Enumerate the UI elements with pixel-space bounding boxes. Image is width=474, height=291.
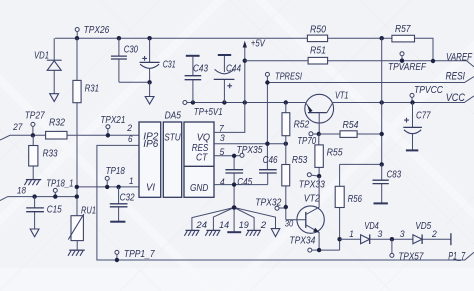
node TPVCC — [410, 100, 414, 104]
ground hatched pin24 — [184, 230, 199, 235]
svg-text:C77: C77 — [416, 111, 431, 122]
node pin1 riser — [75, 185, 79, 189]
diode VD5 — [413, 234, 422, 244]
label C15 — [47, 205, 62, 216]
test point TPX34 — [308, 248, 319, 252]
node diode row left — [337, 237, 341, 241]
label C83 — [387, 170, 402, 181]
label IP6 — [143, 139, 158, 150]
power +5V arrow — [243, 41, 247, 61]
label pin 3 — [220, 133, 226, 143]
wire emitter VT2 — [319, 249, 340, 251]
svg-text:R32: R32 — [49, 118, 65, 129]
svg-text:C45: C45 — [237, 177, 252, 188]
label VT2 — [304, 194, 320, 205]
label R57 — [395, 24, 411, 35]
svg-text:TPX34: TPX34 — [289, 236, 315, 247]
label C44 — [226, 64, 241, 75]
svg-text:14: 14 — [219, 220, 229, 230]
label 3 diode — [378, 229, 384, 239]
svg-text:VT1: VT1 — [335, 91, 349, 102]
IC DA5 box STU — [163, 122, 181, 197]
label TP27 — [25, 111, 45, 122]
svg-text:TPX35: TPX35 — [237, 145, 263, 156]
svg-text:STU: STU — [164, 133, 181, 144]
svg-text:+5V: +5V — [251, 39, 266, 50]
label 24 — [195, 220, 207, 230]
wire R54 net — [319, 133, 382, 135]
label C31 — [163, 60, 176, 71]
svg-text:2: 2 — [126, 123, 132, 133]
svg-text:R51: R51 — [310, 46, 326, 57]
label 19 — [239, 220, 249, 230]
node TP18_1 — [53, 194, 57, 198]
capacitor C31 polarized — [140, 38, 160, 82]
label VCC — [446, 92, 466, 104]
svg-text:VQ: VQ — [197, 133, 210, 144]
label GND — [190, 183, 208, 194]
capacitor C32 — [110, 187, 128, 221]
svg-text:TP+5V1: TP+5V1 — [194, 107, 223, 118]
label TP18 — [106, 166, 126, 177]
wire pin1 net — [77, 186, 139, 188]
label TPVCC — [414, 85, 444, 96]
svg-text:TPVAREF: TPVAREF — [388, 62, 427, 73]
node +5V riser rail — [243, 100, 247, 104]
node TPVAREF — [400, 59, 404, 63]
node ground fan — [232, 205, 237, 210]
svg-text:TP18_1: TP18_1 — [46, 178, 73, 189]
test point TPVCC — [410, 93, 414, 102]
svg-text:R55: R55 — [327, 148, 343, 159]
svg-text:R31: R31 — [85, 84, 99, 95]
label TP70 — [297, 136, 316, 147]
test point TP70 — [309, 132, 319, 136]
svg-text:R33: R33 — [43, 148, 58, 159]
diode VD4 — [361, 234, 370, 244]
test point TP18_1 — [53, 188, 57, 196]
wire VCC net — [333, 96, 474, 103]
resistor R32 — [46, 131, 67, 139]
label TPX34 — [289, 236, 315, 247]
svg-text:TPRESI: TPRESI — [275, 71, 302, 82]
label VQ — [197, 133, 210, 144]
label TP+5V1 — [194, 107, 223, 118]
node C83 — [380, 162, 384, 166]
svg-text:18: 18 — [17, 185, 27, 195]
label C32 — [120, 192, 135, 203]
capacitor C77 polarized — [403, 103, 422, 150]
transistor VT1 — [305, 94, 334, 134]
test point TPRESI — [265, 72, 269, 76]
terminal bar P1 — [450, 233, 452, 245]
label pin 1 — [129, 176, 134, 186]
node TPX34 — [317, 248, 321, 252]
resistor R31 — [73, 38, 81, 216]
svg-text:2: 2 — [431, 229, 437, 239]
svg-text:C44: C44 — [226, 64, 241, 75]
ground arrow below C31 — [145, 82, 154, 104]
ground hatched RU1 — [68, 250, 85, 256]
wire RESI net — [267, 77, 474, 83]
label C30 — [124, 45, 139, 56]
label P1_7 — [448, 250, 466, 262]
test point TP27 — [31, 122, 35, 135]
svg-text:24: 24 — [195, 220, 207, 230]
capacitor C15 — [26, 197, 44, 229]
resistor R33 — [29, 135, 38, 179]
svg-text:IP6: IP6 — [143, 139, 158, 150]
resistor R54 — [340, 131, 357, 138]
node pin4 C45 — [232, 182, 236, 186]
test point TPVAREF — [400, 52, 404, 61]
wire net 18 input — [0, 197, 77, 201]
label 1 diode — [349, 229, 354, 239]
svg-text:6: 6 — [128, 134, 133, 144]
wire C83 net — [340, 163, 382, 165]
svg-text:C30: C30 — [124, 45, 139, 56]
svg-text:R56: R56 — [348, 194, 363, 205]
label R51 — [310, 46, 326, 57]
label R32 — [49, 118, 65, 129]
ground arrow fan — [271, 229, 280, 237]
capacitor C45 — [225, 156, 243, 208]
svg-text:C32: C32 — [120, 192, 135, 203]
resistor R52 — [282, 103, 290, 144]
node pin5 C45 — [232, 154, 236, 158]
label R33 — [43, 148, 58, 159]
svg-text:7: 7 — [219, 123, 225, 133]
svg-text:TP18: TP18 — [106, 166, 126, 177]
label VAREF — [446, 51, 472, 63]
svg-text:VI: VI — [146, 183, 155, 194]
wire +5V riser pin7 — [214, 61, 245, 133]
label STU — [164, 133, 181, 144]
label C77 — [416, 111, 431, 122]
svg-text:TP27: TP27 — [25, 111, 45, 122]
capacitor C30 — [111, 38, 127, 82]
label TPP1_7 — [124, 249, 155, 260]
label C43 — [193, 64, 208, 75]
svg-text:VT2: VT2 — [304, 194, 320, 205]
label 2 diode — [431, 229, 437, 239]
wire pin6 riser TPP1_7 — [97, 145, 474, 260]
svg-text:R53: R53 — [292, 155, 308, 166]
label IP2 — [143, 132, 158, 143]
node riser 18 — [75, 194, 79, 198]
label C46 — [263, 155, 278, 166]
node R31 top — [75, 36, 79, 40]
wire pin3 net — [214, 143, 286, 145]
svg-text:4: 4 — [220, 177, 225, 187]
svg-text:3: 3 — [378, 229, 384, 239]
node bus VCC — [380, 100, 384, 104]
test point TPX57 — [390, 239, 394, 257]
node C30 top — [117, 36, 121, 40]
svg-text:VD5: VD5 — [415, 221, 431, 232]
label CT — [196, 153, 208, 164]
node VAREF corner — [431, 59, 435, 63]
IC DA5 box IP — [139, 122, 161, 197]
svg-text:C43: C43 — [193, 64, 208, 75]
label VD1 — [34, 51, 49, 62]
svg-text:DA5: DA5 — [165, 111, 182, 122]
capacitor C83 — [373, 164, 389, 202]
diode VD1 — [47, 60, 62, 93]
label VD4 — [364, 221, 379, 232]
ground bar below C32 — [110, 221, 125, 223]
label RU1 — [81, 205, 96, 216]
node TP27 — [31, 133, 35, 137]
svg-text:C31: C31 — [163, 60, 176, 71]
label TPX32 — [255, 198, 281, 209]
resistor R55 — [315, 134, 323, 176]
svg-text:TP70: TP70 — [297, 136, 316, 147]
node R52 top — [284, 100, 288, 104]
svg-text:C46: C46 — [263, 155, 278, 166]
node TPRESI — [265, 80, 269, 84]
label VD5 — [415, 221, 431, 232]
node C43 bottom — [191, 100, 195, 104]
label 14 — [219, 220, 229, 230]
label R31 — [85, 84, 99, 95]
svg-text:TPX32: TPX32 — [255, 198, 281, 209]
node C44 bottom — [222, 100, 226, 104]
ground hatched R33 — [24, 180, 41, 186]
svg-text:P1_7: P1_7 — [448, 250, 466, 262]
node bus top — [380, 36, 384, 40]
svg-text:1: 1 — [129, 176, 134, 186]
resistor R50 — [307, 35, 327, 42]
test point TP+5V1 — [183, 101, 187, 105]
label TPX26 — [84, 25, 110, 36]
wire +5V1 rail — [187, 102, 382, 104]
svg-text:VCC: VCC — [446, 92, 466, 104]
svg-text:RU1: RU1 — [81, 205, 96, 216]
label R52 — [294, 120, 310, 131]
svg-text:TPX26: TPX26 — [84, 25, 110, 36]
ground arrow below VD1 — [50, 94, 59, 102]
wire pin5 net — [214, 155, 240, 157]
label pin 4 — [220, 177, 225, 187]
ground bar below C83 — [374, 202, 388, 204]
svg-text:RESI: RESI — [446, 71, 466, 83]
svg-text:VD1: VD1 — [34, 51, 49, 62]
node +5V corner — [243, 59, 247, 63]
node TP18 — [105, 185, 109, 189]
varistor RU1 — [68, 214, 84, 250]
test point TPX35 — [240, 153, 244, 157]
label R56 — [348, 194, 363, 205]
node TP70 — [317, 132, 321, 136]
svg-text:3: 3 — [220, 133, 226, 143]
test point TPX33 — [307, 173, 319, 177]
node pin3 TPRESI column — [265, 142, 269, 146]
svg-text:19: 19 — [239, 220, 249, 230]
label +5V — [251, 39, 266, 50]
label TPX35 — [237, 145, 263, 156]
label TPX57 — [398, 251, 423, 262]
label 18 — [17, 185, 27, 195]
label R53 — [292, 155, 308, 166]
svg-text:TPX33: TPX33 — [299, 179, 325, 190]
svg-text:27: 27 — [12, 122, 23, 132]
label 27 — [12, 122, 23, 132]
svg-text:GND: GND — [190, 183, 208, 194]
wire TPRESI column — [266, 76, 268, 169]
ground bar below C77 — [406, 149, 418, 151]
capacitor C46 — [259, 170, 277, 185]
IC ground fan — [192, 208, 276, 232]
ground arrow below C15 — [30, 229, 39, 237]
node C15 top — [32, 194, 36, 198]
test point TPP1_7 — [115, 250, 119, 260]
svg-text:1: 1 — [349, 229, 354, 239]
wire top net TPX26/R50 — [55, 38, 433, 61]
svg-text:30: 30 — [285, 218, 294, 228]
wire pin4 net — [214, 184, 268, 186]
svg-text:5: 5 — [220, 147, 226, 157]
wire bus vertical — [381, 38, 383, 164]
label C45 — [237, 177, 252, 188]
svg-text:TPVCC: TPVCC — [414, 85, 444, 96]
label TPX21 — [100, 115, 125, 126]
wire R51 VAREF net — [245, 61, 474, 67]
wire diode row — [340, 238, 451, 240]
label DA5 — [165, 111, 182, 122]
label 2 fan — [260, 220, 267, 230]
node TPX57 — [390, 237, 394, 241]
IC DA5 box VQ — [184, 122, 214, 197]
label RES — [192, 143, 209, 154]
label pin 6 — [128, 134, 133, 144]
svg-text:2: 2 — [260, 220, 267, 230]
node C31 top — [147, 36, 151, 40]
node R52 bottom — [284, 142, 288, 146]
svg-text:VAREF: VAREF — [446, 51, 472, 63]
svg-text:TPX21: TPX21 — [100, 115, 125, 126]
ground hatched pin14 — [205, 230, 220, 235]
label 3b diode — [400, 229, 406, 239]
svg-text:TPP1_7: TPP1_7 — [124, 249, 155, 260]
node TPX21 — [106, 133, 110, 137]
svg-text:R52: R52 — [294, 120, 310, 131]
test point TPX21 — [106, 125, 110, 136]
label R54 — [343, 120, 359, 131]
node TPX32 — [284, 205, 288, 209]
label VT1 — [335, 91, 349, 102]
label RESI — [446, 71, 466, 83]
test point TPX32 — [275, 206, 286, 210]
svg-text:C83: C83 — [387, 170, 402, 181]
test point TPX26 — [75, 28, 79, 39]
svg-text:TPX57: TPX57 — [398, 251, 423, 262]
resistor R56 — [335, 164, 344, 250]
label TP18_1 — [46, 178, 73, 189]
svg-text:CT: CT — [196, 153, 208, 164]
svg-text:R54: R54 — [343, 120, 359, 131]
svg-text:R50: R50 — [310, 24, 326, 35]
label 30 — [285, 218, 294, 228]
resistor R51 — [308, 57, 328, 64]
wire C30 C31 bottom — [119, 81, 150, 83]
label TPVAREF — [388, 62, 427, 73]
capacitor C43 — [185, 56, 202, 103]
label R55 — [327, 148, 343, 159]
wire net 27 input — [0, 135, 139, 140]
label pin 5 — [220, 147, 226, 157]
transistor VT2 — [286, 176, 325, 250]
node R54 bus — [380, 132, 384, 136]
label pin 7 — [219, 123, 225, 133]
label TPX33 — [299, 179, 325, 190]
resistor R57 — [392, 35, 415, 42]
wire VD1 branch — [53, 38, 55, 60]
svg-text:3: 3 — [400, 229, 406, 239]
label TPRESI — [275, 71, 302, 82]
label R50 — [310, 24, 326, 35]
label pin 2 — [126, 123, 132, 133]
test point TP18 — [105, 176, 109, 187]
capacitor C44 polarized — [214, 55, 235, 103]
label VI — [146, 183, 155, 194]
svg-text:R57: R57 — [395, 24, 411, 35]
node C31 bottom — [147, 80, 151, 84]
node TPP1_7 — [115, 258, 119, 262]
node TPX33 — [317, 174, 321, 178]
ground bar pin19 — [227, 231, 241, 233]
node C32 top — [116, 185, 120, 189]
ground hatched pin2 — [246, 230, 261, 235]
resistor R53 — [282, 144, 290, 220]
svg-text:C15: C15 — [47, 205, 62, 216]
